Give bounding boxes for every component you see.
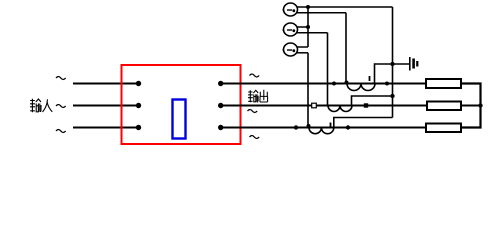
- burden resistor R1: [426, 79, 461, 88]
- wire to earth: [393, 63, 410, 65]
- wire common bus of meter A terminals: [307, 7, 309, 47]
- wire CT3 right end up: [334, 118, 393, 128]
- earth ground bar 1: [409, 57, 411, 71]
- wire M3 terminal B: [297, 52, 308, 54]
- output pin node phase 2: [218, 103, 223, 108]
- CT1 secondary winding: [347, 84, 375, 91]
- meter M3 face marks: [283, 49, 296, 52]
- meter M1: [284, 3, 298, 16]
- output pin node phase 1: [218, 81, 223, 86]
- wire common return (vertical): [392, 7, 394, 118]
- input tilde phase 1: [56, 77, 66, 80]
- node common right: [478, 103, 482, 107]
- wire R1 to common right: [461, 84, 481, 128]
- node bus M2: [306, 25, 310, 29]
- node CT3 left: [307, 124, 311, 128]
- node return CT2 junction: [390, 94, 394, 98]
- wire R2 to common right: [461, 105, 481, 107]
- filter component (blue rectangle): [173, 100, 186, 139]
- input tilde phase 2: [56, 105, 66, 108]
- burden resistor R2: [427, 102, 461, 111]
- wire M1-B down to CT1: [345, 13, 347, 84]
- output pin node phase 3: [218, 125, 223, 130]
- meter M2: [284, 23, 298, 36]
- output tilde phase 3: [250, 136, 260, 139]
- wire CT1 right end up: [375, 64, 393, 84]
- node phase1 b: [385, 82, 389, 86]
- wire CT2 right end up: [352, 96, 393, 106]
- wire M2 terminal A: [297, 26, 308, 28]
- CT2 secondary winding: [328, 106, 352, 112]
- wire M3 terminal A: [297, 46, 308, 48]
- wire input phase 2: [73, 105, 138, 107]
- filter box (red): [122, 65, 241, 144]
- CT1 polarity tick: [369, 76, 371, 81]
- node phase1 a: [332, 82, 336, 86]
- input pin node phase 3: [136, 125, 141, 130]
- output tilde phase 1: [250, 74, 260, 77]
- node phase3 b: [346, 125, 350, 129]
- wire M1 terminal A: [297, 6, 393, 8]
- earth ground bar 3: [416, 61, 418, 67]
- input pin node phase 1: [136, 81, 141, 86]
- wire M2 terminal B: [297, 32, 328, 34]
- node phase2 b (solid square): [364, 103, 368, 107]
- CT3 polarity tick: [330, 123, 332, 127]
- node return/ground junction: [390, 62, 394, 66]
- terminal square phase2 (open): [312, 103, 317, 108]
- node CT1 left: [345, 81, 349, 85]
- wire output phase 2: [221, 105, 427, 107]
- label 输入 (input): [30, 99, 52, 112]
- wire input phase 3: [73, 127, 138, 129]
- wire input phase 1: [73, 83, 138, 85]
- input pin node phase 2: [136, 103, 141, 108]
- label 输出 (output): [248, 90, 268, 103]
- wire M1 terminal B: [297, 12, 346, 14]
- meter M1 face marks: [283, 9, 296, 12]
- meter M2 face marks: [283, 29, 296, 32]
- node phase3 a: [294, 125, 298, 129]
- wire output phase 1: [221, 83, 426, 85]
- output tilde phase 2: [248, 110, 258, 113]
- earth ground bar 2: [412, 59, 415, 69]
- wire output phase 3: [221, 127, 426, 129]
- node bus M1: [306, 5, 310, 9]
- CT3 secondary winding: [309, 128, 334, 134]
- meter M3: [284, 43, 298, 56]
- wire M2-B down to CT2: [327, 33, 329, 106]
- burden resistor R3: [426, 124, 461, 133]
- input tilde phase 3: [56, 130, 66, 133]
- wire M3-B down to CT3: [307, 53, 309, 128]
